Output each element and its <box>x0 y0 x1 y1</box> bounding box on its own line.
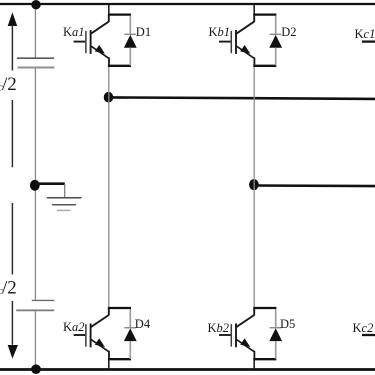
svg-text:Kb1: Kb1 <box>209 25 231 39</box>
node: junction dot bottom bus / capacitor branch <box>31 364 41 374</box>
svg-text:D2: D2 <box>281 25 296 39</box>
wire: leg a, top bus to upper cell <box>108 5 110 15</box>
svg-text:Kc2: Kc2 <box>353 321 374 335</box>
wire: negative DC bus (bottom rail) <box>0 368 375 371</box>
wire: emitter/anode bar of cell a2 <box>108 358 131 360</box>
diode D2 <box>269 16 282 66</box>
wire: gate lead of Kc1 (phase c, cut at right edge) <box>362 40 375 42</box>
wire: leg a, lower cell to bottom bus <box>108 359 110 369</box>
ground (earth symbol) <box>47 198 82 211</box>
diode D5 <box>269 309 282 359</box>
svg-text:Ka2: Ka2 <box>63 320 85 334</box>
svg-text:/2: /2 <box>2 74 17 95</box>
transistor Kb1 (IGBT) <box>219 15 254 66</box>
wire: emitter/anode bar of cell a1 <box>108 65 131 67</box>
capacitor C2 (lower DC-link cap, plates) <box>16 300 54 310</box>
wire: collector/cathode bar of cell b1 <box>253 13 276 15</box>
wire: phase-a output line <box>109 97 375 99</box>
wire: leg b, top bus to upper cell <box>253 5 255 15</box>
wire: gate lead of Kc2 (phase c, cut at right edge) <box>362 334 375 336</box>
wire: leg b vertical (upper cell to lower cell through phase node) <box>253 66 255 308</box>
wire: collector/cathode bar of cell a2 <box>108 307 131 309</box>
svg-text:Ka1: Ka1 <box>63 25 85 39</box>
transistor Ka1 (IGBT) <box>74 15 109 66</box>
wire: emitter/anode bar of cell b1 <box>253 65 276 67</box>
svg-text:D1: D1 <box>136 25 151 39</box>
node: junction dot capacitor midpoint <box>30 180 40 191</box>
wire: collector/cathode bar of cell b2 <box>253 307 276 309</box>
transistor Ka2 (IGBT) <box>74 308 109 359</box>
wire: positive DC bus (top rail) <box>0 3 375 5</box>
wire: C2 bottom plate to negative bus <box>34 311 36 368</box>
svg-text:D4: D4 <box>135 317 151 331</box>
wire: emitter/anode bar of cell b2 <box>253 358 276 360</box>
wire: leg a vertical (upper cell to lower cell through phase node) <box>108 66 110 308</box>
transistor Kb2 (IGBT) <box>219 308 254 359</box>
svg-text:D5: D5 <box>280 317 295 331</box>
svg-text:/2: /2 <box>2 278 17 299</box>
wire: ground link from midpoint node <box>35 182 65 185</box>
wire: capacitor branch vertical (bus to C1 top plate) <box>34 5 36 58</box>
wire: C1 bottom plate to midpoint node <box>34 68 36 183</box>
svg-text:Kc1: Kc1 <box>355 27 375 41</box>
node: junction dot phase-a midpoint <box>104 92 114 103</box>
node: junction dot top bus / capacitor branch <box>31 0 40 9</box>
wire: phase-b output line <box>254 184 375 187</box>
voltage arrow Udc/2 (upper, pointing up) <box>8 12 18 167</box>
wire: collector/cathode bar of cell a1 <box>108 13 131 15</box>
diode D4 <box>124 309 137 359</box>
capacitor C1 (upper DC-link cap, plates) <box>17 58 55 67</box>
diode D1 <box>124 16 137 66</box>
wire: ground stem <box>64 184 66 197</box>
voltage arrow Udc/2 (lower, pointing down) <box>8 203 18 359</box>
wire: leg b, lower cell to bottom bus <box>253 359 255 369</box>
wire: midpoint node to C2 top plate <box>34 188 36 300</box>
node: junction dot phase-b midpoint <box>249 179 259 190</box>
svg-text:Kb2: Kb2 <box>208 321 230 335</box>
